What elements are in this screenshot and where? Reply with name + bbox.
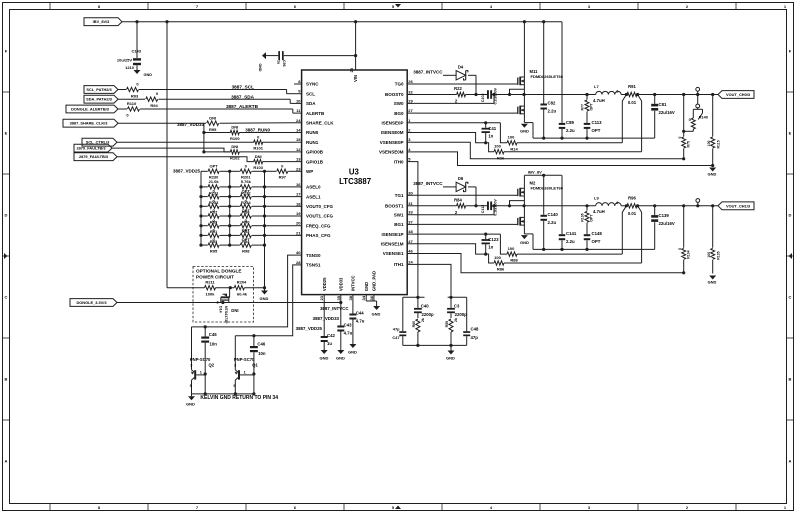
svg-text:R136: R136 (581, 213, 585, 221)
svg-text:C46: C46 (257, 341, 265, 346)
svg-text:2k: 2k (454, 318, 458, 322)
svg-text:E: E (5, 131, 8, 136)
svg-text:2k: 2k (421, 318, 425, 322)
wire IBV_8V rail (122, 20, 562, 23)
svg-text:R22: R22 (454, 86, 462, 91)
svg-text:R75: R75 (687, 141, 691, 147)
svg-text:2.2u: 2.2u (566, 239, 575, 244)
svg-text:FDMD8260LET60: FDMD8260LET60 (531, 185, 564, 190)
svg-text:3887_VDD25: 3887_VDD25 (173, 169, 201, 174)
wire VDD33 rail (202, 123, 205, 153)
svg-text:C44: C44 (356, 311, 364, 316)
svg-text:D: D (5, 213, 8, 218)
svg-text:R135: R135 (717, 251, 721, 259)
pin 15 RUN1 (294, 137, 319, 145)
svg-text:C82: C82 (548, 101, 556, 106)
wire SW pin to switch node (414, 206, 495, 215)
wire RUN1 from flag (117, 141, 254, 143)
wire boost refresh (508, 89, 525, 96)
ground under C42 (320, 350, 329, 361)
pin 29 SW0 (394, 98, 414, 106)
svg-text:10n: 10n (258, 351, 266, 356)
svg-text:3887_INTVCC: 3887_INTVCC (413, 70, 443, 75)
wire kelvin ground bus (192, 392, 256, 395)
svg-text:R101: R101 (253, 146, 263, 151)
svg-text:C81: C81 (659, 102, 667, 107)
node SCL_CTRL flag (82, 138, 117, 146)
diode D6 (443, 176, 476, 206)
svg-text:GND: GND (708, 280, 717, 285)
svg-text:100: 100 (707, 140, 711, 146)
wire kelvin sense + (622, 95, 626, 143)
svg-text:47p: 47p (393, 327, 400, 332)
pin 24 ITH1 (394, 259, 414, 267)
pin 40 TSNS0 (294, 250, 321, 258)
svg-text:TG1: TG1 (395, 193, 404, 198)
pin 4 VSENSE0M (379, 147, 414, 155)
svg-text:D: D (789, 213, 792, 218)
svg-text:BOOST1: BOOST1 (385, 204, 404, 209)
svg-text:GPIO0B: GPIO0B (306, 150, 324, 155)
net label 3887_INTVCC (D4) (413, 70, 443, 75)
inductor L7 4.7uH (593, 84, 621, 103)
svg-text:3: 3 (216, 301, 218, 305)
svg-text:RUN0: RUN0 (306, 130, 319, 135)
svg-text:C139: C139 (659, 213, 670, 218)
svg-text:3887_SCL: 3887_SCL (232, 85, 255, 90)
wire CH0 FET drain from rail (523, 22, 525, 72)
resistor R134 0 (678, 204, 691, 273)
pin 26 TG0 (395, 79, 414, 87)
pin 1 ISENSE0P (381, 118, 413, 126)
capacitor C41 1n (414, 121, 501, 144)
svg-text:19: 19 (296, 211, 301, 216)
svg-text:TSNS0: TSNS0 (306, 253, 321, 258)
resistor R88 100 (500, 234, 622, 263)
resistor R60 2k (412, 318, 425, 345)
svg-text:OPT: OPT (592, 239, 601, 244)
svg-text:TG0: TG0 (395, 82, 404, 87)
svg-text:10: 10 (296, 98, 301, 103)
svg-text:R94: R94 (150, 103, 158, 108)
svg-text:15: 15 (296, 137, 301, 142)
resistor R201 0 (230, 163, 265, 179)
wire SW pin to switch node (414, 95, 495, 104)
svg-text:R100: R100 (230, 136, 240, 141)
svg-text:2200p: 2200p (422, 312, 435, 317)
capacitor C139 22u/16V (651, 204, 675, 249)
svg-text:GND: GND (320, 356, 329, 361)
svg-text:24: 24 (408, 259, 413, 264)
wire kelvin sense - (638, 206, 642, 263)
net label 3887_VDD33 (bottom) (313, 316, 340, 321)
resistor R231 21.0k (201, 179, 230, 195)
resistor R22 2 (414, 86, 488, 103)
svg-text:100: 100 (508, 246, 515, 251)
node 2879_FAULTB flag (lower) (74, 153, 117, 161)
capacitor C82 2.2u (540, 22, 556, 138)
wire switch node (494, 204, 596, 207)
svg-text:5.76k: 5.76k (241, 179, 252, 184)
transistor M2 top FET (514, 180, 564, 206)
svg-text:0.01: 0.01 (628, 100, 637, 105)
wire TG gate (414, 83, 514, 85)
svg-text:R91: R91 (628, 84, 636, 89)
svg-text:D4: D4 (458, 65, 464, 70)
svg-text:3887_ALERTB: 3887_ALERTB (226, 104, 259, 109)
pin 2 ISENSE0M (381, 128, 414, 136)
resistor R135 100 (707, 204, 721, 273)
svg-text:GND: GND (258, 64, 262, 72)
svg-text:C42: C42 (327, 333, 335, 338)
wire TSNS1 (235, 265, 294, 337)
svg-text:C40: C40 (421, 303, 429, 308)
pin 23 VDD25 (319, 277, 327, 301)
net label 3887_VDD33 (177, 122, 205, 127)
wire TSNS0 (192, 255, 295, 328)
wire comp bottom rail (403, 344, 467, 347)
wire VSENSE0P (414, 142, 686, 160)
resistor R103 DNI (253, 154, 294, 170)
pin 24 SHARE_CLK (294, 118, 334, 126)
capacitor C43 4.7u (337, 301, 352, 350)
wire DONGLE_3.3V to VDD33 (117, 301, 341, 304)
wire boost refresh (508, 201, 525, 208)
capacitor C81 22u/16V (651, 93, 675, 138)
svg-text:1n: 1n (488, 245, 493, 250)
svg-text:47: 47 (408, 239, 413, 244)
pin 8 SYNC (294, 79, 319, 87)
wire ladder row to pin (265, 234, 295, 236)
wire ladder row to pin (265, 196, 295, 198)
svg-text:SCL: SCL (306, 91, 315, 96)
ground under C44 (348, 344, 357, 355)
svg-text:C96: C96 (282, 60, 286, 67)
pin 47 ISENSE1M (381, 239, 414, 247)
svg-text:B: B (5, 377, 8, 382)
wire BG gate (414, 112, 514, 114)
svg-text:4.7uH: 4.7uH (593, 98, 605, 103)
svg-text:26: 26 (408, 79, 413, 84)
svg-text:100k: 100k (206, 291, 216, 296)
svg-text:PHAS_CFG: PHAS_CFG (306, 233, 331, 238)
svg-text:IBV_8V: IBV_8V (528, 170, 542, 175)
resistor R26 100 (414, 133, 642, 161)
resistor R14 100 (500, 123, 622, 152)
node IBV_8V input flag (84, 18, 122, 26)
svg-text:3887_VDD25: 3887_VDD25 (296, 326, 323, 331)
resistor R77 OPT snubber (581, 95, 594, 123)
svg-text:TSNS1: TSNS1 (306, 263, 321, 268)
capacitor C148 OPT snubber (584, 231, 603, 249)
pin 37 BG1 (394, 219, 413, 227)
svg-text:17: 17 (296, 192, 301, 197)
svg-text:R134: R134 (687, 250, 691, 258)
svg-text:GND: GND (372, 312, 381, 317)
transistor Q2 PNP-SC70 (190, 327, 215, 394)
wire VIN (354, 22, 357, 70)
svg-text:GND: GND (336, 356, 345, 361)
resistor R86 100 (414, 244, 642, 272)
resistor R211 100k (167, 279, 234, 296)
pin 5 ITH0 (394, 157, 414, 165)
capacitor C140 2.2u (540, 175, 558, 249)
wire TG gate (414, 194, 514, 196)
resistor R88 0 (230, 198, 265, 214)
pin 11 ALERTB (294, 108, 325, 116)
net label 3887_VDD25 (173, 169, 201, 174)
svg-text:35: 35 (336, 295, 341, 300)
resistor R97 0 (265, 163, 295, 179)
ground GND pad pins (366, 301, 380, 317)
resistor R115 100 (707, 93, 721, 166)
svg-text:R86: R86 (497, 267, 505, 272)
dongle power circuit dashed box (193, 267, 254, 323)
capacitor C48 47p (463, 297, 479, 345)
svg-text:SDA: SDA (306, 101, 316, 106)
svg-text:DNI: DNI (231, 308, 238, 313)
svg-text:34: 34 (361, 295, 366, 300)
svg-text:OPT: OPT (592, 128, 601, 133)
svg-text:C113: C113 (592, 120, 603, 125)
svg-text:VOUT_CH0/3: VOUT_CH0/3 (726, 92, 751, 97)
capacitor C44 4.7u (349, 301, 364, 344)
svg-text:23: 23 (319, 295, 324, 300)
svg-text:GND: GND (520, 129, 529, 134)
pin 38 INTVCC (348, 276, 356, 301)
svg-text:ITH1: ITH1 (394, 262, 404, 267)
pin 36 GND_PAD (369, 271, 377, 301)
svg-text:0: 0 (678, 248, 682, 250)
pin 33 SW1 (394, 210, 414, 218)
ground left of C96 (258, 52, 266, 72)
svg-text:DNI: DNI (209, 115, 216, 120)
test point TP with resistor R140 0 (682, 87, 708, 132)
resistor R233 0 (201, 189, 230, 205)
svg-text:10u/25V: 10u/25V (117, 58, 132, 63)
svg-text:Q1: Q1 (252, 362, 258, 367)
pin 13 GPIO1B (294, 157, 324, 165)
svg-text:2879_FAULTB/3: 2879_FAULTB/3 (76, 146, 106, 151)
svg-text:0.01: 0.01 (628, 211, 637, 216)
pin 19 VOUT1_CFG (294, 211, 334, 219)
resistor R90 OPT (230, 208, 265, 224)
svg-text:BG0: BG0 (394, 111, 404, 116)
op-amp U1 IC U3 LTC3887 body (302, 70, 408, 295)
node SDA_PATH2 flag (84, 95, 118, 103)
svg-text:32: 32 (408, 90, 413, 95)
svg-text:SW1: SW1 (394, 212, 404, 217)
svg-text:FREQ_CFG: FREQ_CFG (306, 223, 331, 228)
svg-text:R88: R88 (510, 258, 518, 263)
resistor R91 0 (201, 218, 230, 234)
svg-text:A: A (5, 459, 8, 464)
node DONGLE_3.3V flag (70, 299, 117, 307)
svg-text:LTC3887: LTC3887 (339, 177, 371, 186)
svg-text:OPTIONAL DONGLE: OPTIONAL DONGLE (196, 269, 242, 274)
svg-text:47p: 47p (471, 335, 479, 340)
svg-text:L7: L7 (594, 84, 599, 89)
svg-text:POWER CIRCUIT: POWER CIRCUIT (196, 275, 234, 280)
svg-text:29: 29 (408, 98, 413, 103)
svg-text:C: C (789, 295, 792, 300)
svg-text:22u/16V: 22u/16V (659, 110, 675, 115)
svg-text:PNP-SC70: PNP-SC70 (190, 357, 211, 362)
svg-text:U3: U3 (349, 168, 360, 177)
svg-text:36: 36 (369, 295, 374, 300)
svg-text:Q2: Q2 (209, 362, 215, 367)
capacitor C42 1u (321, 301, 336, 350)
svg-text:12: 12 (296, 147, 301, 152)
svg-text:SYNC: SYNC (306, 82, 319, 87)
svg-text:OPT: OPT (590, 214, 594, 222)
capacitor C46 10n (250, 336, 266, 394)
svg-text:R102: R102 (230, 155, 240, 160)
svg-text:25: 25 (349, 67, 354, 72)
svg-text:R93: R93 (131, 94, 139, 99)
ground at low-side FET source (520, 123, 533, 139)
transistor Q1 PNP-SC70 (233, 336, 258, 394)
ground at low-side FET source (520, 234, 533, 250)
svg-text:R103: R103 (253, 165, 263, 170)
svg-text:GND: GND (446, 356, 455, 361)
svg-text:GND: GND (260, 296, 269, 301)
svg-text:DNI: DNI (255, 154, 262, 159)
wire ITH0 to compensation (414, 162, 418, 298)
svg-text:D14: D14 (218, 306, 222, 313)
svg-text:1: 1 (200, 370, 202, 374)
node 3887_SHARE_CLK flag (63, 119, 118, 127)
node VOUT_CH1/3 output flag (718, 202, 754, 210)
svg-text:GND_PAD: GND_PAD (372, 271, 377, 291)
pin 25 VIN (349, 67, 358, 82)
wire VDD25 rail (199, 171, 202, 246)
resistor R75 0 (678, 93, 691, 159)
svg-text:A: A (789, 459, 792, 464)
svg-text:ISENSE0M: ISENSE0M (381, 130, 404, 135)
svg-text:2879_FAULTB/3: 2879_FAULTB/3 (79, 154, 109, 159)
svg-text:33: 33 (408, 210, 413, 215)
svg-text:R95: R95 (209, 127, 217, 132)
ground below C143 (134, 70, 153, 77)
svg-text:2: 2 (616, 201, 618, 205)
capacitor C143 (117, 22, 142, 70)
capacitor C112 0.1u/100V (481, 199, 498, 216)
svg-text:3: 3 (190, 363, 192, 367)
wire ladder mid rail A (228, 170, 231, 247)
svg-text:R115: R115 (717, 140, 721, 148)
svg-text:R60: R60 (412, 321, 416, 327)
svg-text:GND: GND (520, 240, 529, 245)
svg-text:R14: R14 (510, 146, 518, 151)
pin 3 VSENSE0P (380, 137, 414, 145)
svg-text:VDD25: VDD25 (322, 277, 327, 291)
wire kelvin sense + (622, 206, 626, 254)
svg-text:VSENSE1: VSENSE1 (383, 251, 404, 256)
resistor R96 0.01 shunt (621, 196, 718, 217)
svg-text:FDMD8260LET60: FDMD8260LET60 (531, 74, 564, 79)
svg-text:DNI: DNI (231, 144, 238, 149)
svg-text:18: 18 (296, 201, 301, 206)
resistor R91 0.01 shunt (621, 84, 718, 105)
svg-text:RUN1: RUN1 (306, 140, 319, 145)
wire ladder mid rail B (to GND) (263, 170, 266, 288)
svg-text:SW0: SW0 (394, 101, 404, 106)
svg-text:VOUT_CH1/3: VOUT_CH1/3 (726, 203, 751, 208)
svg-text:4.7u: 4.7u (344, 331, 353, 336)
svg-text:C102: C102 (481, 94, 485, 103)
node SCL_PATH2 flag (84, 86, 118, 94)
svg-text:VDD33: VDD33 (338, 277, 343, 291)
svg-text:2.2u: 2.2u (566, 128, 575, 133)
transistor M2 bottom FET (514, 206, 525, 234)
svg-text:22u/16V: 22u/16V (659, 221, 675, 226)
svg-text:B: B (789, 377, 792, 382)
pin 35 VDD33 (336, 277, 344, 301)
wire SHARE_CLK (118, 122, 294, 124)
svg-text:C41: C41 (488, 126, 496, 131)
svg-text:KELVIN GND RETURN TO PIN 34: KELVIN GND RETURN TO PIN 34 (200, 395, 278, 401)
svg-text:3887_RUN0: 3887_RUN0 (245, 128, 270, 133)
transistor M11 bottom FET (514, 95, 525, 123)
resistor R84 2 (414, 198, 488, 215)
svg-text:21: 21 (296, 230, 301, 235)
svg-text:R211: R211 (205, 279, 215, 284)
svg-text:VOUT1_CFG: VOUT1_CFG (306, 214, 334, 219)
svg-text:46: 46 (408, 249, 413, 254)
transistor M11 top FET (514, 69, 564, 95)
svg-text:DONGLE_ALERTB/3: DONGLE_ALERTB/3 (71, 107, 110, 112)
svg-text:NTS4173P: NTS4173P (224, 306, 228, 324)
svg-text:VOUT0_CFG: VOUT0_CFG (306, 204, 334, 209)
svg-text:C43: C43 (344, 323, 352, 328)
wire power return bus (533, 137, 655, 140)
svg-text:4.7uH: 4.7uH (593, 209, 605, 214)
wire GPIO0B from flag (112, 148, 231, 152)
pin 17 ASEL1 (294, 192, 321, 200)
net label 3887_INTVCC (bottom) (320, 306, 349, 311)
svg-text:C3: C3 (454, 303, 460, 308)
svg-text:C48: C48 (471, 327, 479, 332)
svg-text:OPT: OPT (590, 102, 594, 110)
svg-text:R140: R140 (699, 116, 708, 120)
svg-text:OPT: OPT (242, 208, 251, 213)
svg-text:VIN: VIN (353, 75, 358, 82)
svg-text:VSENSE0P: VSENSE0P (380, 140, 404, 145)
svg-text:14: 14 (296, 128, 301, 133)
net label 3887_INTVCC (D6) (413, 181, 443, 186)
pin 30 TG1 (395, 190, 414, 198)
svg-text:GND: GND (348, 350, 357, 355)
svg-text:GND: GND (364, 282, 369, 291)
svg-text:C148: C148 (592, 231, 603, 236)
svg-text:4.7u: 4.7u (356, 319, 365, 324)
transistor D14 NTS4173P DNI (216, 288, 238, 324)
resistor R92 0 (230, 218, 265, 234)
svg-text:GND: GND (708, 172, 717, 177)
svg-text:ISENSE1P: ISENSE1P (381, 232, 403, 237)
pin 28 TSNS1 (294, 260, 321, 268)
pin 14 RUN0 (294, 128, 319, 136)
svg-text:R59: R59 (445, 321, 449, 327)
node DONGLE_ALERTB flag (66, 105, 118, 113)
resistor R234 OPT (230, 189, 265, 205)
svg-text:16: 16 (296, 182, 301, 187)
pin 21 PHAS_CFG (294, 230, 331, 238)
wire SDA with resistor R94 0 (118, 91, 294, 108)
svg-text:SHARE_CLK: SHARE_CLK (306, 121, 334, 126)
svg-text:30: 30 (408, 190, 413, 195)
